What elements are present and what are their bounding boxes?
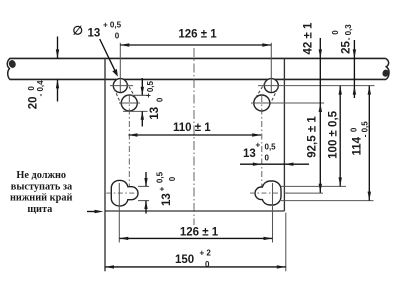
- svg-text:0: 0: [331, 30, 340, 35]
- rail bottom line: [10, 78, 387, 80]
- svg-text:∅: ∅: [73, 24, 83, 38]
- svg-text:0,5: 0,5: [146, 80, 155, 92]
- leader line from Ø13 label to top-left hole: [100, 39, 116, 73]
- dimension 100±0.5 vertical line: [339, 86, 341, 187]
- rail left end cap: [7, 58, 10, 79]
- extension line keyhole-right tab top to 100 dim: [281, 185, 346, 187]
- svg-text:92,5 ± 1: 92,5 ± 1: [307, 116, 319, 158]
- dashed slot tangent left pair: [114, 89, 122, 107]
- dimension 25/-0.3 vertical line: [353, 40, 355, 98]
- svg-text:нижний край: нижний край: [10, 193, 73, 204]
- hole A1 top-left circle Ø13: [113, 79, 127, 93]
- hole B2 second-right circle Ø13: [254, 95, 270, 111]
- dimension 110±1 line: [129, 134, 262, 136]
- dimension 42±1 and 92.5±1 shared vertical line: [319, 38, 321, 193]
- extension line right of plate bottom corner for 150 dim: [285, 213, 287, 272]
- svg-text:- 0,5: - 0,5: [361, 121, 370, 138]
- extension line keyhole-left tab top: [138, 185, 149, 187]
- hole B1 top-right circle Ø13: [264, 79, 278, 93]
- centerline h top-right hole, long extension to right dims: [258, 85, 375, 87]
- dimension 13+0.5/0 keyhole-left: dim line with outside arrows: [145, 172, 147, 186]
- svg-text:0: 0: [265, 153, 270, 162]
- svg-text:+: +: [144, 93, 153, 98]
- svg-text:щита: щита: [27, 204, 52, 215]
- svg-text:+: +: [158, 186, 167, 191]
- svg-text:42 ± 1: 42 ± 1: [303, 22, 315, 54]
- centerline h second-right hole, extension to 42/92.5 dim: [251, 102, 324, 104]
- plate bottom edge: [105, 210, 284, 212]
- svg-text:114: 114: [351, 136, 363, 155]
- svg-text:0,5: 0,5: [155, 171, 164, 183]
- svg-text:0: 0: [27, 86, 36, 91]
- svg-text:13: 13: [88, 27, 101, 39]
- svg-text:13: 13: [161, 193, 173, 206]
- plate right edge: [283, 58, 285, 211]
- keyhole right h dash-dot centerline: [250, 192, 288, 194]
- keyhole left outline: [111, 180, 138, 206]
- centerline v top-right hole / extension for top 126 dim: [270, 43, 272, 92]
- dimension 13 second-left hole: extension lines: [127, 94, 148, 96]
- extension line keyhole-right center to 92.5 dim: [286, 192, 323, 194]
- svg-text:25: 25: [340, 41, 352, 54]
- svg-text:0: 0: [115, 31, 120, 40]
- centerline h top-left hole: [110, 85, 133, 87]
- dimension 13 second-left hole: dim line with outside arrows: [141, 78, 143, 95]
- centerline h second-left hole: [119, 102, 140, 104]
- plate vertical centerline (dash-dot): [193, 48, 195, 225]
- svg-text:126 ± 1: 126 ± 1: [178, 29, 217, 41]
- hole A2 second-left circle Ø13: [121, 95, 137, 111]
- note leader arrow: [87, 211, 98, 213]
- keyhole right v centerline / extension to bottom 126 dim: [272, 183, 274, 243]
- svg-text:13: 13: [243, 148, 256, 160]
- dashed slot tangent right pair: [255, 82, 265, 99]
- centerline v top-left hole / extension for top 126 dim: [119, 43, 121, 92]
- svg-text:100 ± 0,5: 100 ± 0,5: [327, 110, 339, 158]
- svg-text:0: 0: [205, 260, 210, 269]
- svg-text:- 0,3: - 0,3: [344, 24, 353, 41]
- dimension 20/-0.4 line upper part: [57, 37, 59, 59]
- svg-text:0: 0: [168, 176, 177, 181]
- dimension 13+0.5/0 horizontal near second-right hole: line: [240, 163, 309, 165]
- svg-text:- 0,4: - 0,4: [36, 80, 45, 97]
- extension line keyhole-left tab bottom: [138, 200, 149, 202]
- svg-text:13: 13: [149, 107, 161, 120]
- svg-text:выступать за: выступать за: [11, 181, 72, 192]
- dimension bottom 126±1 line: [119, 237, 272, 239]
- svg-text:Не должно: Не должно: [16, 170, 66, 181]
- plate left edge (extends down as extension line for 150 dim): [104, 58, 106, 271]
- svg-text:+: +: [256, 141, 261, 150]
- dimension top 126±1 line: [120, 44, 271, 46]
- dimension 114/-0.5 vertical line: [368, 86, 370, 201]
- svg-text:+ 2: + 2: [200, 249, 212, 258]
- svg-text:150: 150: [175, 254, 194, 266]
- rail right end cap: [386, 58, 389, 79]
- dash-dot v from second-left hole down to keyhole: [128, 96, 130, 189]
- rail left end blob: [8, 59, 17, 69]
- dimension 20/-0.4 line lower part: [57, 79, 59, 101]
- dash-dot v from second-right hole down to keyhole: [261, 96, 263, 189]
- svg-text:110 ± 1: 110 ± 1: [173, 122, 211, 134]
- keyhole right outline (mirror): [255, 181, 281, 205]
- svg-text:20: 20: [28, 97, 40, 110]
- rail top line: [10, 57, 386, 59]
- extension line keyhole-right tab bottom to 114 dim: [281, 200, 374, 202]
- svg-text:+ 0,5: + 0,5: [103, 21, 122, 30]
- svg-text:0,5: 0,5: [265, 143, 277, 152]
- svg-text:0: 0: [350, 127, 359, 132]
- keyhole left h dash-dot centerline: [106, 192, 139, 194]
- svg-text:0: 0: [155, 97, 164, 102]
- dimension 150+2/0 line: [105, 266, 286, 268]
- svg-text:126 ± 1: 126 ± 1: [180, 227, 219, 239]
- rail right end blob: [382, 69, 390, 78]
- keyhole left v centerline / extension to bottom 126 dim: [118, 183, 120, 243]
